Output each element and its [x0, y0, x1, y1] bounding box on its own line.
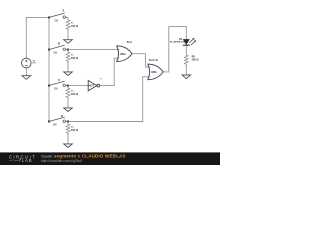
switch SW3 lever C [50, 81, 65, 85]
switch SW4 contact circle D [63, 120, 66, 123]
wire OR2 output to LED loop [163, 27, 186, 72]
footer logo bolt [19, 158, 22, 162]
switch SW4 lever D [50, 117, 65, 121]
junction node B bus [48, 49, 50, 51]
resistor R1 zigzag [66, 20, 70, 29]
svg-text:http://circuitlab.com/c/q25u8: http://circuitlab.com/c/q25u8 [41, 159, 82, 163]
svg-text:SW: SW [53, 52, 58, 55]
switch SW1 contact circle A [63, 16, 66, 19]
wire LED to resistor R5 [185, 46, 187, 55]
svg-text:LAB: LAB [22, 158, 33, 163]
switch SW2 contact circle B [63, 48, 66, 51]
switch SW2 lever B [50, 45, 65, 49]
svg-text:SW: SW [54, 88, 59, 91]
LED D1 [183, 38, 196, 45]
footer logo wave [9, 160, 18, 162]
resistor R2 zigzag [66, 52, 70, 61]
wire resistor R2 to ground [67, 62, 69, 72]
wire bus vertical [48, 18, 50, 122]
junction node C bus [48, 85, 50, 87]
junction resistor R2 tap [67, 49, 69, 51]
wire source bottom to ground [25, 68, 27, 76]
switch SW3 contact circle C [63, 84, 66, 87]
ground under source [22, 76, 31, 80]
svg-text:B: B [58, 42, 60, 46]
ground under R3 [64, 108, 73, 112]
wire resistor R3 branch [67, 86, 69, 88]
ground under R1 [64, 40, 73, 44]
junction resistor R4 tap [67, 120, 69, 122]
wire resistor R5 to ground [185, 64, 187, 75]
LED arrows [189, 39, 195, 46]
svg-text:Claudio :: Claudio : [41, 155, 54, 159]
wire OR1 output to OR2 upper input [132, 54, 150, 67]
ground under R4 [64, 144, 73, 148]
junction resistor R3 tap [67, 85, 69, 87]
svg-text:9 V: 9 V [32, 63, 36, 65]
svg-text:segmento c CLAUDIO NIEBLAS: segmento c CLAUDIO NIEBLAS [54, 154, 126, 159]
junction node D bus [48, 120, 50, 122]
wire resistor R1 to ground [67, 29, 69, 39]
svg-text:SW: SW [53, 124, 58, 127]
wire resistor R4 to ground [67, 134, 69, 144]
wire source top to bus [26, 18, 49, 59]
wire resistor R2 branch [67, 50, 69, 52]
OR gate ORa [117, 46, 132, 62]
NOT gate [88, 80, 99, 90]
wire resistor R4 branch [67, 122, 69, 125]
wire switch A circle to resistor R1 [66, 17, 68, 19]
voltage source V1 [22, 58, 32, 68]
svg-text:D: D [61, 114, 63, 118]
junction node A [48, 16, 50, 18]
wire switch B to OR1 input [66, 49, 119, 51]
resistor R4 zigzag [66, 124, 70, 133]
wire NOT output to OR1 lower input [100, 58, 119, 85]
resistor R5 zigzag [184, 55, 188, 64]
switch SW1 lever A [50, 13, 65, 17]
ground under R2 [64, 72, 73, 76]
svg-text:SW: SW [54, 19, 59, 22]
OR gate ORb [148, 64, 163, 80]
footer bar [0, 152, 220, 165]
ground under R5 [182, 75, 191, 79]
resistor R3 zigzag [66, 88, 70, 97]
wire resistor R3 to ground [67, 98, 69, 108]
wire switch D to OR2 lower input [66, 77, 150, 122]
wire switch C to NOT input [66, 85, 89, 87]
